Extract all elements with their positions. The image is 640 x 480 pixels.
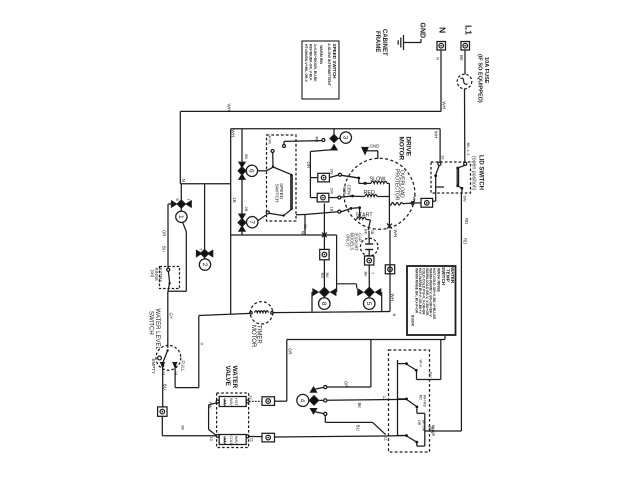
svg-text:OR: OR	[161, 230, 166, 236]
svg-text:4: 4	[299, 399, 306, 403]
svg-text:(IF SO EQUIPPED): (IF SO EQUIPPED)	[477, 54, 483, 103]
svg-text:BK: BK	[459, 55, 464, 61]
svg-text:LID SWITCH: LID SWITCH	[477, 155, 483, 190]
svg-text:RD: RD	[462, 238, 467, 244]
svg-text:N: N	[438, 27, 448, 33]
svg-text:SWITCH: SWITCH	[441, 267, 446, 286]
svg-text:BK: BK	[364, 229, 369, 235]
svg-text:RD: RD	[418, 395, 422, 401]
svg-text:MOTOR: MOTOR	[398, 137, 405, 161]
svg-text:OR: OR	[287, 348, 292, 355]
svg-text:SPEED SWITCH: SPEED SWITCH	[332, 44, 337, 80]
svg-text:SW: SW	[341, 187, 347, 195]
svg-text:2B: 2B	[244, 207, 249, 212]
svg-text:(on): (on)	[150, 270, 155, 278]
svg-text:WATER LEVEL: WATER LEVEL	[154, 309, 160, 351]
svg-text:WARM RINSE BK, BU-V+OR: WARM RINSE BK, BU-V+OR	[415, 268, 419, 314]
svg-text:W: W	[412, 197, 417, 201]
svg-text:WH-RD: WH-RD	[423, 395, 427, 408]
svg-text:WASH RINSE: WASH RINSE	[437, 268, 441, 293]
svg-text:WH: WH	[390, 294, 395, 301]
svg-text:13: 13	[162, 371, 166, 375]
svg-text:L1: L1	[464, 25, 474, 35]
svg-text:ONLY): ONLY)	[345, 234, 350, 247]
svg-text:BK: BK	[364, 272, 369, 278]
svg-text:16: 16	[441, 155, 446, 160]
svg-text:BK-OR: BK-OR	[421, 420, 425, 432]
svg-text:B: B	[392, 314, 397, 317]
svg-text:WH: WH	[231, 130, 236, 137]
svg-text:HOT: HOT	[234, 398, 238, 406]
svg-text:11: 11	[383, 437, 388, 442]
svg-text:OR: OR	[417, 420, 421, 426]
svg-text:6: 6	[248, 169, 255, 173]
svg-text:6B: 6B	[244, 154, 249, 159]
svg-text:1B: 1B	[232, 198, 237, 203]
svg-text:5: 5	[365, 302, 372, 306]
svg-text:T: T	[186, 199, 190, 201]
svg-text:3W: 3W	[329, 169, 334, 175]
svg-text:SLOW: SLOW	[370, 177, 387, 183]
svg-text:FULL: FULL	[181, 361, 186, 373]
svg-text:BU: BU	[355, 425, 360, 431]
svg-text:PU: PU	[314, 137, 319, 143]
svg-text:13: 13	[248, 395, 253, 400]
svg-text:1: 1	[177, 215, 184, 219]
svg-text:2: 2	[201, 263, 208, 267]
svg-text:RD: RD	[464, 218, 469, 224]
svg-text:WAV: WAV	[234, 436, 238, 444]
svg-text:15: 15	[209, 437, 214, 442]
svg-text:OR: OR	[306, 162, 311, 169]
svg-text:WH: WH	[434, 131, 439, 138]
svg-text:WARM RIN: WARM RIN	[319, 45, 323, 64]
svg-text:WH: WH	[227, 104, 232, 112]
svg-text:MOTOR: MOTOR	[250, 325, 256, 348]
svg-text:2W: 2W	[329, 188, 334, 194]
svg-text:8: 8	[320, 302, 327, 306]
svg-text:6W: 6W	[462, 196, 467, 202]
svg-text:WH: WH	[441, 102, 446, 109]
svg-text:PROTECTOR: PROTECTOR	[393, 169, 399, 201]
svg-text:WAV: WAV	[229, 398, 233, 406]
svg-text:14: 14	[174, 371, 178, 375]
svg-text:OR: OR	[343, 381, 348, 388]
svg-text:2=V-BK+BK/OR, BU-BK: 2=V-BK+BK/OR, BU-BK	[313, 44, 317, 82]
svg-text:BU: BU	[162, 384, 167, 390]
svg-text:BK: BK	[357, 403, 362, 409]
svg-text:2-SLOW INTERMITTENT: 2-SLOW INTERMITTENT	[327, 44, 331, 87]
svg-text:11: 11	[250, 438, 255, 443]
svg-text:GND: GND	[419, 23, 426, 39]
svg-text:RIN=BK/BK-OR, V-BU+: RIN=BK/BK-OR, V-BU+	[309, 44, 313, 81]
svg-text:BK, L.1: BK, L.1	[466, 143, 471, 157]
svg-text:GND: GND	[370, 144, 380, 149]
svg-text:BW: BW	[430, 427, 435, 434]
svg-text:1B: 1B	[329, 207, 334, 212]
svg-text:START: START	[356, 213, 374, 219]
svg-text:CABINET: CABINET	[381, 29, 387, 56]
svg-text:N: N	[181, 179, 186, 182]
svg-text:BU: BU	[429, 372, 434, 378]
svg-text:12: 12	[382, 396, 387, 401]
svg-text:BK: BK	[325, 273, 330, 279]
svg-text:RD: RD	[320, 273, 325, 279]
svg-text:COLD: COLD	[229, 436, 233, 446]
svg-text:PW: PW	[208, 402, 213, 409]
svg-text:7: 7	[370, 272, 375, 275]
svg-text:7: 7	[248, 220, 255, 224]
svg-text:WH: WH	[393, 230, 398, 237]
svg-text:SWITCH: SWITCH	[273, 184, 279, 203]
svg-text:BU: BU	[161, 246, 166, 252]
svg-text:FRAME: FRAME	[374, 31, 380, 52]
svg-text:5B: 5B	[301, 231, 306, 236]
svg-text:T: T	[199, 248, 203, 250]
svg-text:B: B	[175, 199, 179, 202]
svg-text:3: 3	[342, 136, 349, 140]
svg-text:SWITCH: SWITCH	[148, 311, 154, 335]
svg-text:RED: RED	[364, 190, 375, 196]
svg-text:3B: 3B	[370, 230, 375, 235]
svg-text:W-V: W-V	[419, 360, 424, 368]
svg-text:N: N	[435, 57, 440, 60]
svg-text:BK: BK	[180, 426, 184, 431]
svg-text:10A FUSE: 10A FUSE	[483, 57, 489, 84]
svg-text:BU/OR: BU/OR	[410, 315, 414, 326]
svg-text:V: V	[200, 343, 205, 346]
svg-text:EMPTY: EMPTY	[151, 359, 156, 375]
svg-text:VALVE: VALVE	[224, 366, 231, 387]
svg-text:GY: GY	[168, 313, 173, 319]
svg-text:8-VR: 8-VR	[268, 136, 272, 145]
svg-text:3B: 3B	[303, 224, 308, 229]
svg-text:HT=BK/BU-V+BK, OR-V: HT=BK/BU-V+BK, OR-V	[304, 44, 308, 83]
svg-text:DRIVE: DRIVE	[405, 137, 412, 157]
svg-text:(open position): (open position)	[470, 156, 476, 191]
